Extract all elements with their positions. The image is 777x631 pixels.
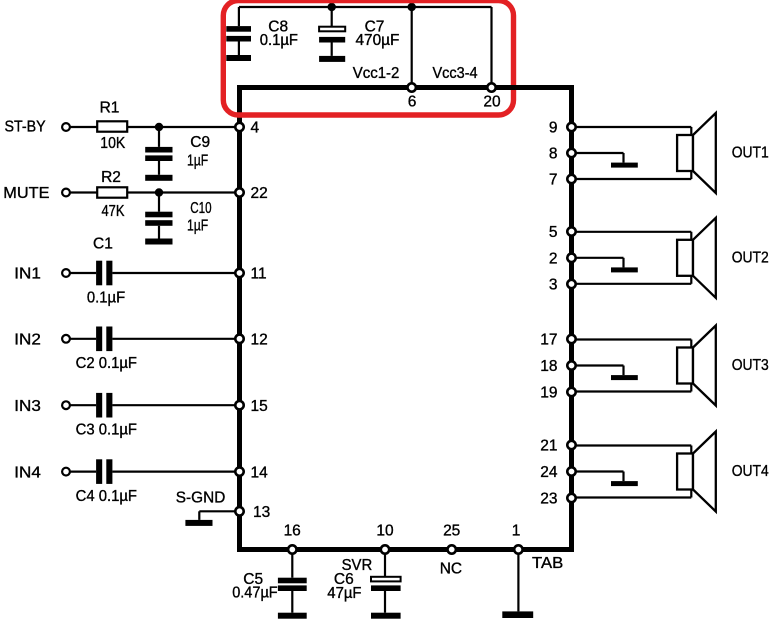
svg-text:C9: C9: [190, 134, 210, 151]
svg-text:25: 25: [443, 523, 460, 540]
svg-text:1µF: 1µF: [187, 153, 208, 170]
svg-text:OUT2: OUT2: [732, 250, 769, 267]
svg-text:Vcc3-4: Vcc3-4: [433, 65, 478, 82]
svg-text:C2 0.1µF: C2 0.1µF: [76, 355, 137, 372]
svg-text:R1: R1: [100, 100, 120, 117]
svg-text:22: 22: [251, 185, 268, 202]
svg-text:19: 19: [540, 385, 557, 402]
svg-text:13: 13: [253, 504, 270, 521]
svg-text:20: 20: [483, 94, 501, 111]
svg-text:0.1µF: 0.1µF: [87, 290, 125, 307]
svg-text:NC: NC: [440, 561, 462, 578]
svg-text:IN3: IN3: [14, 398, 41, 415]
svg-text:MUTE: MUTE: [3, 185, 49, 202]
svg-text:2: 2: [549, 251, 558, 268]
svg-text:12: 12: [251, 332, 268, 349]
svg-text:C3 0.1µF: C3 0.1µF: [76, 422, 137, 439]
svg-text:47K: 47K: [102, 203, 126, 220]
svg-text:9: 9: [549, 120, 558, 137]
svg-text:4: 4: [251, 120, 260, 137]
svg-text:1: 1: [512, 523, 521, 540]
svg-text:16: 16: [284, 523, 301, 540]
svg-text:ST-BY: ST-BY: [5, 118, 46, 135]
svg-text:14: 14: [251, 464, 269, 481]
svg-text:IN1: IN1: [14, 266, 41, 283]
svg-text:8: 8: [549, 146, 558, 163]
svg-text:6: 6: [408, 94, 417, 111]
svg-text:18: 18: [540, 358, 557, 375]
svg-text:24: 24: [540, 464, 558, 481]
svg-text:0.47µF: 0.47µF: [232, 585, 278, 602]
svg-text:OUT4: OUT4: [732, 463, 769, 480]
svg-text:10K: 10K: [100, 135, 126, 152]
svg-text:C4 0.1µF: C4 0.1µF: [76, 488, 137, 505]
svg-text:11: 11: [251, 266, 267, 283]
svg-text:3: 3: [549, 277, 558, 294]
svg-text:21: 21: [540, 438, 557, 455]
svg-text:15: 15: [251, 398, 268, 415]
svg-text:470µF: 470µF: [356, 32, 400, 49]
svg-text:OUT3: OUT3: [732, 357, 769, 374]
svg-text:7: 7: [549, 172, 558, 189]
svg-text:R2: R2: [101, 169, 121, 186]
svg-text:0.1µF: 0.1µF: [260, 32, 298, 49]
svg-text:5: 5: [549, 224, 558, 241]
svg-text:IN2: IN2: [14, 332, 41, 349]
svg-text:OUT1: OUT1: [732, 145, 769, 162]
svg-text:47µF: 47µF: [327, 585, 361, 602]
svg-text:TAB: TAB: [532, 555, 563, 572]
svg-text:17: 17: [540, 332, 557, 349]
svg-text:23: 23: [540, 491, 557, 508]
svg-text:IN4: IN4: [14, 464, 41, 481]
svg-text:Vcc1-2: Vcc1-2: [353, 65, 400, 82]
svg-text:1µF: 1µF: [187, 218, 208, 235]
svg-text:10: 10: [376, 523, 394, 540]
svg-text:C1: C1: [93, 236, 113, 253]
svg-text:C10: C10: [190, 200, 212, 217]
svg-text:S-GND: S-GND: [176, 489, 226, 506]
